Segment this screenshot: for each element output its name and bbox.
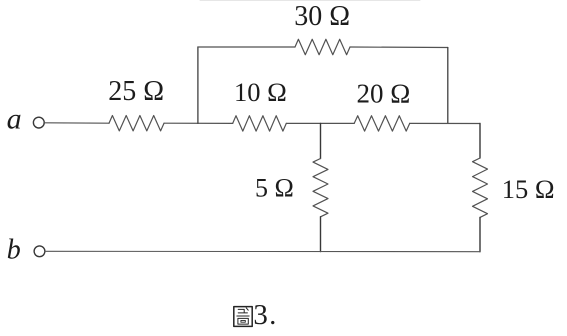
resistor 10 Ohm: [233, 116, 287, 131]
wire resistor5 to bottom: [320, 217, 322, 252]
svg-text:b: b: [7, 234, 21, 265]
node1 vertical wire up: [197, 47, 199, 123]
right branch wire down to resistor 15: [479, 124, 481, 159]
svg-text:3.: 3.: [253, 299, 277, 331]
svg-text:25 Ω: 25 Ω: [108, 76, 164, 107]
resistor 5 Ohm: [313, 159, 328, 217]
resistor 30 Ohm: [295, 39, 350, 54]
caption glyph 圖: [234, 307, 252, 327]
bottom wire b to right branch: [45, 250, 480, 252]
scan artifact line top: [200, 0, 420, 2]
resistor 25 Ohm: [109, 116, 164, 131]
resistor 15 Ohm: [473, 158, 488, 217]
wire resistor15 to bottom: [479, 217, 481, 251]
svg-text:5 Ω: 5 Ω: [255, 173, 294, 202]
top wire left segment: [198, 46, 295, 48]
svg-text:10 Ω: 10 Ω: [234, 77, 287, 107]
right vertical wire from top to main line: [447, 48, 449, 124]
svg-text:a: a: [7, 103, 22, 136]
wire a to resistor 25: [45, 122, 109, 124]
terminal a circle: [33, 117, 44, 128]
wire resistor10 to resistor20: [286, 122, 354, 124]
terminal b circle: [34, 246, 45, 257]
top wire right segment: [350, 46, 448, 49]
svg-text:30 Ω: 30 Ω: [294, 1, 350, 32]
wire resistor25 to node1 and on to resistor10: [164, 122, 233, 124]
wire resistor20 to right corner: [410, 122, 480, 124]
resistor 20 Ohm: [354, 116, 410, 131]
svg-text:15 Ω: 15 Ω: [502, 174, 555, 204]
node2 wire down to resistor 5: [320, 123, 322, 158]
svg-text:20 Ω: 20 Ω: [357, 78, 411, 108]
